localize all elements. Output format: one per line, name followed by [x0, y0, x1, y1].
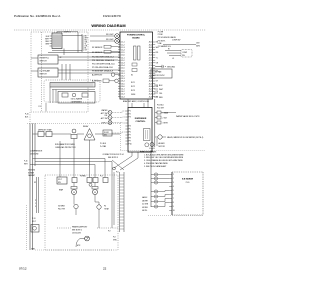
- U2 internal parts: [132, 63, 137, 66]
- dispenser heater: [82, 93, 88, 97]
- svg-text:5. SEE TECH DATA SHEET: 5. SEE TECH DATA SHEET: [144, 165, 167, 168]
- door connector strip: [81, 34, 83, 52]
- svg-text:60HZ: 60HZ: [196, 45, 200, 47]
- wire top bus: [57, 32, 82, 53]
- svg-text:TO WATER VLV: TO WATER VLV: [158, 45, 172, 48]
- svg-text:2 ICE: 2 ICE: [163, 118, 168, 120]
- connector circles C1: [154, 173, 157, 176]
- svg-text:P1 WH: P1 WH: [158, 31, 164, 33]
- thermal fuse: [72, 129, 76, 133]
- svg-text:3 WTR: 3 WTR: [163, 123, 169, 125]
- svg-text:GROUND: GROUND: [167, 66, 176, 68]
- fresh food lamp L2: [115, 39, 120, 44]
- svg-text:FZ SENSOR: FZ SENSOR: [92, 52, 103, 54]
- svg-text:HOME FILL: HOME FILL: [40, 57, 50, 59]
- freezer thermostat TS2: [74, 204, 78, 208]
- svg-text:WHT: WHT: [159, 89, 164, 91]
- main power control board U2: [120, 32, 153, 99]
- svg-text:RELAY: RELAY: [83, 125, 89, 128]
- wire harness ladder: [120, 172, 125, 232]
- svg-text:P-1: P-1: [39, 106, 42, 108]
- switch box B2: [38, 68, 58, 77]
- switch labels: [101, 109, 108, 124]
- svg-text:4D RED: 4D RED: [142, 207, 149, 209]
- svg-text:4. PNK-PINK TAN-TAN WIRE: 4. PNK-PINK TAN-TAN WIRE: [144, 162, 168, 165]
- dispenser control board U3: [128, 108, 152, 153]
- U3 internal buzzer: [144, 129, 151, 141]
- cabinet dashed border lower: [26, 205, 28, 250]
- svg-text:5: 5: [35, 206, 36, 208]
- svg-text:OR: OR: [156, 63, 159, 65]
- auger motor M3: [150, 143, 154, 147]
- svg-text:P9: P9: [129, 141, 131, 143]
- U3 left pin ticks: [125, 111, 128, 144]
- dispenser paddle switch: [62, 93, 68, 97]
- svg-text:8: 8: [173, 202, 174, 204]
- dispenser assembly dashed box: [44, 80, 100, 102]
- connector pin labels: [85, 36, 89, 52]
- svg-text:OVERLOAD PROTECTOR: OVERLOAD PROTECTOR: [55, 146, 76, 149]
- svg-text:4E YEL: 4E YEL: [142, 210, 147, 212]
- svg-text:1: 1: [173, 174, 174, 176]
- svg-text:FILL HTR: FILL HTR: [58, 208, 66, 210]
- svg-text:6: 6: [173, 194, 174, 196]
- svg-text:M: M: [73, 192, 75, 194]
- right pin outside labels: [156, 42, 160, 99]
- right mid trunk: [154, 99, 156, 147]
- svg-text:3. ORG-ORANGE BLU-BLUE GRY-G: 3. ORG-ORANGE BLU-BLUE GRY-GRAY WIRE: [144, 159, 183, 162]
- svg-text:115V 425W: 115V 425W: [72, 232, 81, 234]
- svg-text:DISPENSER: DISPENSER: [135, 118, 147, 120]
- door boundary dashed: [41, 32, 43, 112]
- svg-text:22: 22: [103, 267, 107, 271]
- svg-text:5: 5: [173, 190, 174, 192]
- svg-text:P9 YEL/WH 18GA J1-8: P9 YEL/WH 18GA J1-8: [92, 66, 114, 69]
- svg-text:07/12: 07/12: [19, 267, 27, 271]
- svg-text:P-20: P-20: [186, 182, 190, 184]
- lower right wire rows: [159, 85, 164, 99]
- condenser fan box: [151, 69, 172, 78]
- ground wire pair: [36, 177, 38, 213]
- svg-text:FZ FAN: FZ FAN: [80, 175, 86, 178]
- section divider dotted mid: [27, 122, 121, 124]
- ice maker bottom dashed: [148, 215, 203, 217]
- left trunk wires: [29, 123, 31, 250]
- svg-text:P-16: P-16: [24, 161, 27, 163]
- svg-text:BLK: BLK: [25, 117, 29, 119]
- svg-text:115V: 115V: [196, 43, 201, 45]
- svg-text:INV: INV: [182, 55, 186, 57]
- svg-text:COMPRESSOR: COMPRESSOR: [30, 151, 43, 153]
- svg-text:P12 BLK/WH 18GA J1-2: P12 BLK/WH 18GA J1-2: [92, 56, 115, 59]
- svg-text:3: 3: [173, 182, 174, 184]
- ice maker wire labels: [142, 196, 149, 212]
- svg-text:SEE NOTE 3: SEE NOTE 3: [108, 157, 118, 159]
- freezer feed wires: [30, 159, 112, 181]
- svg-text:P2: P2: [129, 114, 131, 116]
- svg-text:FGSC23F7D: FGSC23F7D: [103, 14, 122, 18]
- section divider dotted right: [121, 149, 206, 151]
- wires from B2: [58, 64, 120, 80]
- svg-text:9: 9: [173, 206, 174, 208]
- svg-text:FF SENSOR: FF SENSOR: [92, 47, 103, 49]
- svg-text:Publication No. 242086101 Rev: Publication No. 242086101 Rev A: [14, 14, 61, 18]
- svg-text:BRACKET ASSY, CONTROL BD: BRACKET ASSY, CONTROL BD: [123, 100, 150, 103]
- U1 pin labels: [45, 36, 50, 46]
- switch box B1: [38, 55, 58, 64]
- freezer light bulb: [31, 225, 39, 233]
- svg-text:RED: RED: [159, 97, 163, 99]
- svg-text:FZ LT: FZ LT: [58, 179, 62, 181]
- svg-text:FZ LT: FZ LT: [32, 221, 36, 223]
- U2 right pin ticks: [153, 42, 156, 97]
- B1 feed stubs: [31, 57, 38, 59]
- svg-text:P8 BRN/WH 18GA J1-9: P8 BRN/WH 18GA J1-9: [92, 70, 114, 73]
- svg-text:WIRING DIAGRAM: WIRING DIAGRAM: [91, 23, 125, 28]
- dispenser actuator switch SW1: [108, 111, 112, 115]
- freezer bottom dotted edge tail: [35, 249, 113, 251]
- defrost bimetal pair: [87, 178, 92, 183]
- svg-text:FZ: FZ: [104, 206, 106, 208]
- svg-text:P-9: P-9: [108, 231, 111, 233]
- svg-text:A-DEFROST: A-DEFROST: [92, 74, 103, 77]
- ice maker box U4: [171, 172, 173, 215]
- heater wires: [76, 239, 85, 248]
- svg-text:1. BLK-BLACK WHT-WHITE GRN-G: 1. BLK-BLACK WHT-WHITE GRN-GREEN WIRE: [144, 153, 184, 156]
- aux valve circle: [158, 135, 162, 139]
- freezer thermostat TS3: [97, 205, 101, 209]
- svg-text:MOTOR 12VDC: MOTOR 12VDC: [153, 75, 166, 77]
- svg-text:7: 7: [173, 198, 174, 200]
- svg-text:ICE & WATER: ICE & WATER: [71, 98, 83, 101]
- svg-text:YEL: YEL: [159, 93, 162, 95]
- evap fan motor M1: [71, 187, 77, 190]
- svg-text:LINE: LINE: [158, 43, 163, 45]
- svg-text:J4-4: J4-4: [121, 96, 124, 98]
- svg-text:P10 ORG/WH 18GA J1-6: P10 ORG/WH 18GA J1-6: [92, 63, 115, 66]
- svg-text:P10: P10: [129, 144, 132, 146]
- svg-text:GY: GY: [85, 50, 88, 52]
- compressor unit box: [181, 50, 192, 58]
- svg-text:CONNECTOR BLOCK P-14: CONNECTOR BLOCK P-14: [102, 154, 123, 156]
- svg-text:BOARD: BOARD: [132, 36, 140, 39]
- svg-text:115V 60HZ: 115V 60HZ: [30, 154, 38, 156]
- svg-text:ICE: ICE: [104, 115, 108, 117]
- fresh food lamp L1: [115, 34, 120, 39]
- svg-text:VALVE, WATER W/ FLOW METER (NO: VALVE, WATER W/ FLOW METER (NOTE 4): [167, 136, 204, 139]
- svg-text:P-8: P-8: [113, 237, 116, 239]
- svg-text:RLY2: RLY2: [131, 86, 135, 88]
- svg-text:AUGER: AUGER: [159, 142, 166, 145]
- harness rungs: [120, 175, 125, 229]
- svg-text:P11 RED/WH 18GA J1-4: P11 RED/WH 18GA J1-4: [92, 59, 115, 62]
- connector circles C2: [154, 190, 157, 193]
- section divider vertical dashed: [120, 123, 122, 150]
- svg-text:RLY1: RLY1: [131, 82, 135, 84]
- dispenser wires: [50, 87, 95, 103]
- freezer sensor square: [72, 178, 77, 183]
- dispenser connector strip hatched: [50, 83, 95, 88]
- dotted separator: [14, 29, 206, 31]
- svg-text:CONTROL: CONTROL: [136, 121, 147, 123]
- dispenser lamp: [72, 93, 76, 97]
- ice maker trunk: [150, 150, 152, 207]
- svg-text:HEATER-DEFROST: HEATER-DEFROST: [72, 225, 87, 228]
- svg-text:WATER: WATER: [101, 109, 108, 112]
- svg-text:ICE MAKER: ICE MAKER: [182, 178, 194, 181]
- svg-text:4A BLK: 4A BLK: [142, 196, 148, 199]
- svg-text:DOOR AJAR: DOOR AJAR: [40, 69, 51, 72]
- dispenser housing: [58, 92, 95, 104]
- svg-text:P11 BLU: P11 BLU: [157, 104, 164, 106]
- svg-text:4B WHT: 4B WHT: [142, 200, 148, 202]
- svg-text:P-20: P-20: [25, 114, 29, 116]
- svg-text:2: 2: [173, 178, 174, 180]
- svg-text:COND FAN: COND FAN: [153, 71, 162, 74]
- water valve wires: [155, 113, 176, 123]
- svg-text:HTR: HTR: [77, 245, 81, 247]
- svg-text:P-6: P-6: [116, 172, 119, 174]
- freezer light switch box: [57, 177, 67, 184]
- svg-text:GRN: GRN: [45, 43, 50, 45]
- dispenser actuator switch SW2: [108, 116, 112, 120]
- svg-text:P-13: P-13: [32, 218, 35, 220]
- svg-text:FF LIGHT: FF LIGHT: [106, 34, 114, 36]
- svg-text:P7: P7: [129, 135, 131, 137]
- ice maker wires: [151, 175, 169, 207]
- svg-text:TSTAT: TSTAT: [104, 207, 109, 210]
- svg-text:POWER/CONTROL: POWER/CONTROL: [127, 34, 146, 36]
- svg-text:LO: LO: [172, 58, 175, 60]
- dispenser lamp SW3: [108, 121, 112, 125]
- defrost heater element: [85, 236, 90, 241]
- svg-text:WHT: WHT: [24, 163, 28, 165]
- svg-text:B-SENSOR: B-SENSOR: [92, 81, 102, 83]
- svg-text:P6: P6: [129, 132, 131, 134]
- svg-text:FUSE: FUSE: [131, 94, 135, 96]
- svg-text:P-5 BLU: P-5 BLU: [100, 143, 107, 145]
- U2 internal text rows: [131, 82, 135, 96]
- svg-text:COMP: COMP: [182, 52, 187, 54]
- aux sensor square: [103, 178, 108, 183]
- wires from B1: [58, 57, 120, 60]
- svg-text:P4: P4: [129, 126, 131, 128]
- svg-text:RLY3: RLY3: [131, 90, 135, 92]
- svg-text:ICE MKR: ICE MKR: [58, 206, 65, 208]
- svg-text:P1: P1: [129, 111, 131, 113]
- U2 left pin labels: [121, 42, 124, 99]
- svg-text:GY: GY: [156, 81, 159, 83]
- svg-text:DOOR: DOOR: [104, 132, 110, 134]
- svg-text:RUN CAPACITOR 15MFD: RUN CAPACITOR 15MFD: [55, 143, 76, 146]
- U2 left pin ticks: [118, 42, 121, 97]
- svg-text:ACT SW: ACT SW: [101, 117, 108, 120]
- svg-text:1 MAIN: 1 MAIN: [163, 112, 169, 115]
- cabinet left dashed border: [29, 112, 31, 122]
- svg-text:BLK: BLK: [159, 85, 163, 87]
- svg-text:P8: P8: [129, 138, 131, 140]
- svg-text:MOTOR: MOTOR: [159, 146, 166, 148]
- svg-text:EVAP: EVAP: [59, 189, 63, 192]
- freezer section dashed enclosure: [45, 175, 118, 250]
- water valve coils: [157, 111, 161, 114]
- wires board to dispenser board: [128, 99, 148, 108]
- svg-text:P-3: P-3: [100, 176, 103, 178]
- svg-text:P5: P5: [129, 129, 131, 131]
- defrost heater dashed row: [57, 227, 71, 229]
- svg-text:4: 4: [173, 186, 174, 188]
- svg-text:M: M: [94, 192, 96, 194]
- svg-text:DISPENSER: DISPENSER: [71, 101, 82, 103]
- wire bundle below UI: [48, 49, 120, 56]
- svg-text:4C GRN: 4C GRN: [142, 204, 149, 206]
- svg-text:GRN: GRN: [113, 240, 117, 242]
- freezer fan motor M2: [92, 187, 98, 190]
- svg-text:SWITCH: SWITCH: [40, 61, 48, 63]
- harness wire single: [113, 172, 115, 225]
- svg-text:RD: RD: [156, 52, 159, 54]
- U4 pin labels: [173, 174, 175, 212]
- svg-text:GROUND: GROUND: [28, 170, 36, 172]
- svg-text:10: 10: [173, 210, 175, 212]
- U2 internal relay bars: [134, 46, 137, 60]
- svg-text:P12 GRY: P12 GRY: [157, 107, 165, 109]
- svg-text:K1: K1: [131, 75, 133, 77]
- svg-text:COMP INV: COMP INV: [172, 40, 181, 42]
- U2 right pin labels: [149, 42, 152, 99]
- switch wires dashed: [112, 111, 125, 133]
- svg-text:SWITCH: SWITCH: [40, 74, 48, 76]
- svg-text:WATER VALVE W/ FLO MTR: WATER VALVE W/ FLO MTR: [176, 115, 200, 118]
- svg-text:DISP LT: DISP LT: [101, 122, 107, 124]
- freezer inner wires: [74, 180, 112, 228]
- ground symbol: [155, 66, 162, 68]
- svg-text:P-4 TAN: P-4 TAN: [100, 145, 107, 148]
- fresh food door dashed enclosure: [31, 32, 88, 112]
- mid cluster wires: [33, 134, 121, 159]
- svg-text:J5-4: J5-4: [149, 96, 152, 98]
- svg-text:GRN: GRN: [31, 249, 36, 251]
- U1 pin ticks: [50, 36, 53, 46]
- svg-text:SCREW: SCREW: [28, 172, 34, 174]
- wire label rows: [92, 56, 115, 73]
- svg-text:2. RED-RED YEL-YELLOW BRN-BR: 2. RED-RED YEL-YELLOW BRN-BROWN WIRE: [144, 157, 184, 159]
- svg-text:CABINET: CABINET: [28, 174, 35, 177]
- svg-text:FF LIGHT: FF LIGHT: [106, 39, 114, 41]
- lamp wires: [90, 35, 115, 37]
- aux switch box: [103, 130, 112, 136]
- crossing wires W1: [112, 152, 138, 170]
- svg-text:YL: YL: [156, 57, 158, 59]
- U4 left pin ticks: [169, 175, 172, 211]
- wires to compressor: [163, 45, 196, 56]
- svg-text:DEFROST TSTAT: DEFROST TSTAT: [38, 128, 52, 131]
- svg-text:P3: P3: [129, 117, 131, 119]
- user interface board U1: [52, 33, 62, 49]
- svg-text:1: 1: [35, 203, 36, 205]
- svg-text:P2 BK: P2 BK: [158, 34, 164, 36]
- svg-text:FZ: FZ: [34, 182, 36, 184]
- svg-text:WIRE COLOR KEY:: WIRE COLOR KEY:: [140, 151, 157, 153]
- U3 pin labels: [129, 111, 132, 146]
- svg-text:J2: J2: [60, 57, 62, 59]
- svg-text:SEE NOTE 2: SEE NOTE 2: [72, 229, 82, 231]
